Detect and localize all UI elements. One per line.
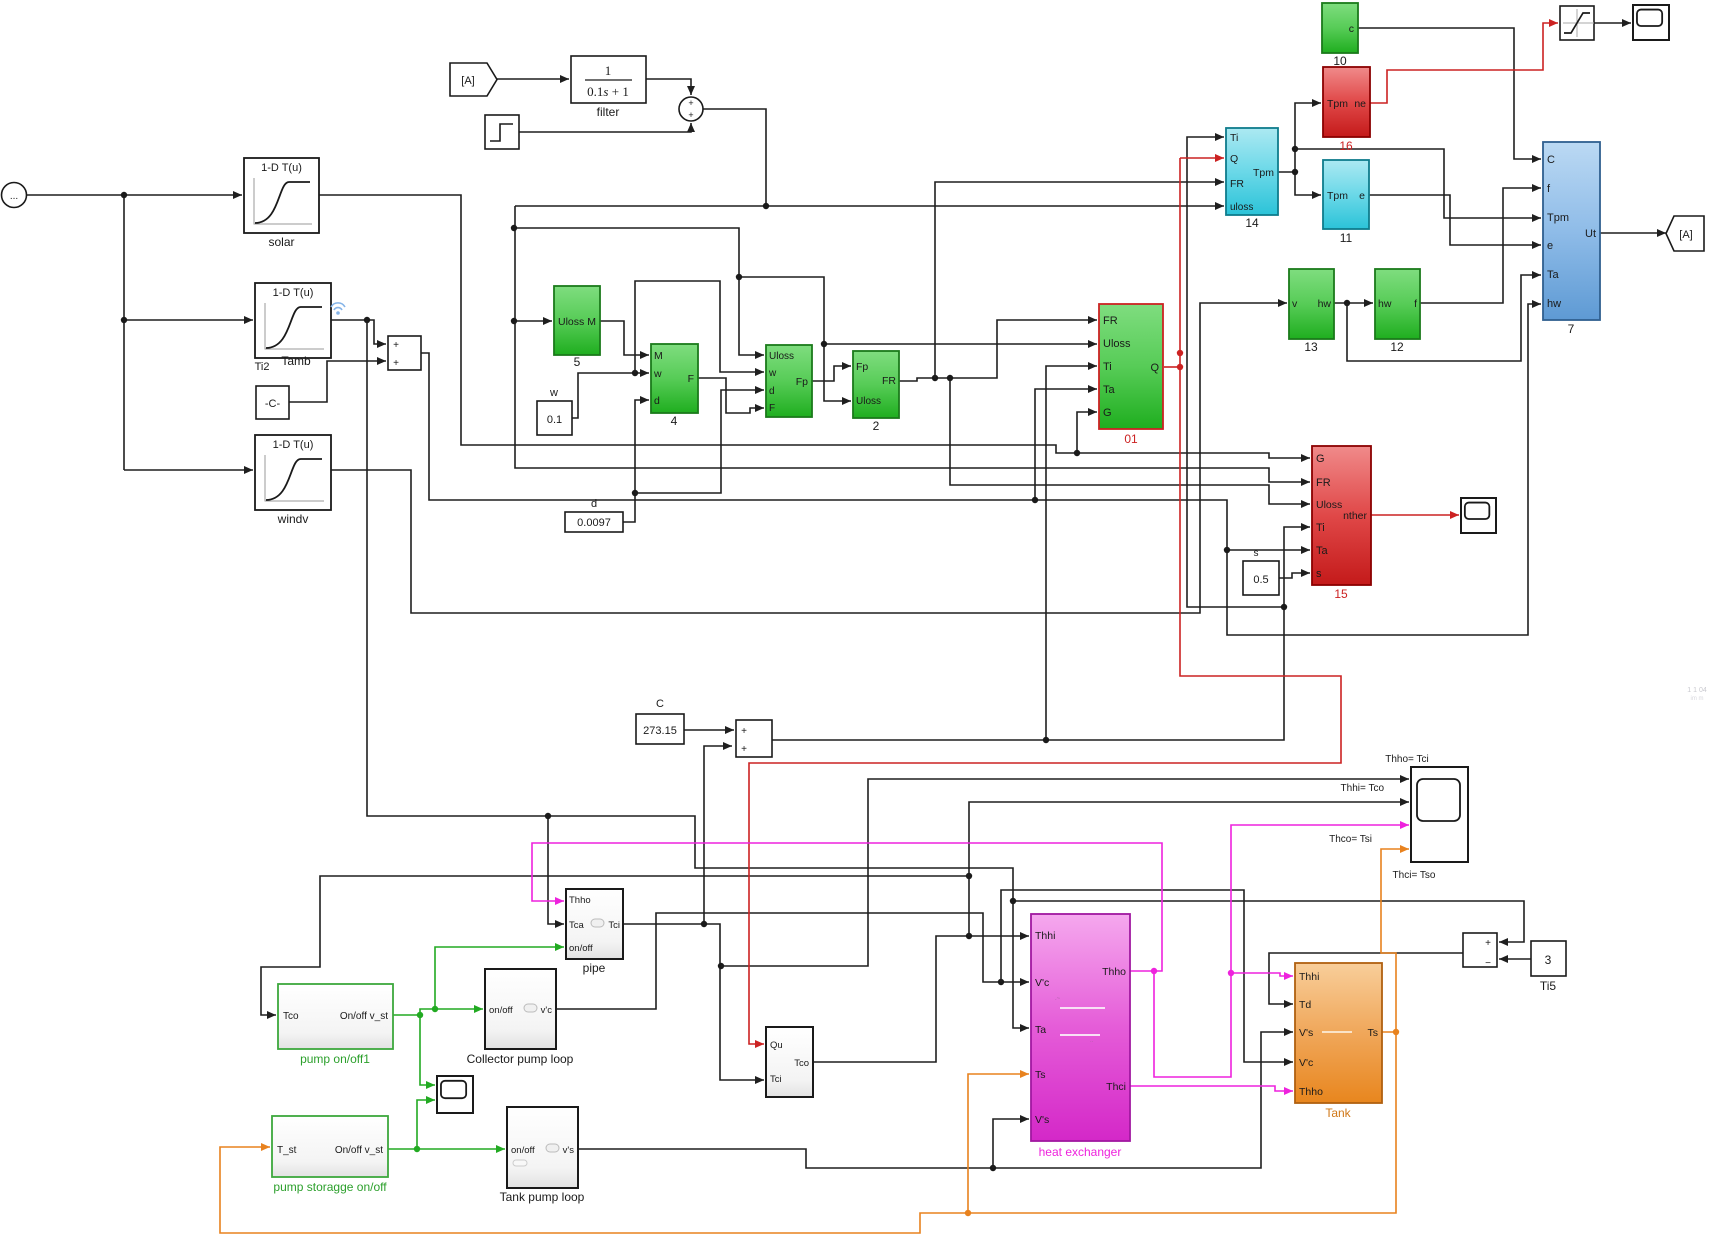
svg-text:FR: FR <box>1103 315 1118 327</box>
svg-text:+: + <box>688 110 693 120</box>
svg-text:e: e <box>1547 240 1553 252</box>
svg-text:0.5: 0.5 <box>1253 574 1268 586</box>
svg-text:Ti5: Ti5 <box>1540 979 1557 993</box>
svg-text:c: c <box>1349 23 1354 35</box>
svg-text:Thci= Tso: Thci= Tso <box>1393 870 1436 881</box>
svg-text:M: M <box>654 350 663 362</box>
svg-text:1: 1 <box>605 63 612 78</box>
svg-text:Uloss: Uloss <box>856 396 881 407</box>
svg-text:v: v <box>1292 298 1298 310</box>
svg-text:Ti: Ti <box>1316 522 1325 534</box>
svg-text:G: G <box>1316 453 1325 465</box>
svg-text:Thhi: Thhi <box>1035 930 1055 942</box>
svg-text:Thho: Thho <box>569 895 591 906</box>
svg-text:FR: FR <box>1316 477 1331 489</box>
svg-text:pump on/off1: pump on/off1 <box>300 1052 370 1066</box>
svg-text:Tank: Tank <box>1325 1106 1351 1120</box>
svg-text:ne: ne <box>1354 98 1366 110</box>
svg-text:Collector pump loop: Collector pump loop <box>467 1052 574 1066</box>
svg-text:uloss: uloss <box>1230 202 1253 213</box>
svg-text:.~: .~ <box>1055 996 1061 1002</box>
svg-text:im m: im m <box>1691 696 1704 702</box>
svg-text:FR: FR <box>1230 178 1244 190</box>
svg-text:V'c: V'c <box>1299 1057 1313 1069</box>
svg-text:Thho: Thho <box>1299 1086 1323 1098</box>
svg-text:5: 5 <box>574 355 581 369</box>
svg-text:M: M <box>587 316 596 328</box>
svg-text:12: 12 <box>1390 340 1404 354</box>
svg-text:solar: solar <box>268 235 294 249</box>
svg-text:f: f <box>1414 298 1417 310</box>
svg-text:2: 2 <box>873 419 880 433</box>
svg-text:1-D T(u): 1-D T(u) <box>273 439 314 451</box>
svg-text:Ta: Ta <box>1035 1024 1046 1036</box>
svg-text:w: w <box>549 387 558 399</box>
svg-text:nther: nther <box>1343 510 1367 522</box>
svg-text:Tpm: Tpm <box>1327 190 1348 202</box>
svg-text:Q: Q <box>1150 362 1159 374</box>
svg-text:Tci: Tci <box>608 920 620 931</box>
svg-text:hw: hw <box>1547 298 1561 310</box>
svg-text:Ut: Ut <box>1585 228 1596 240</box>
svg-text:+: + <box>688 98 693 108</box>
svg-text:Fp: Fp <box>856 361 868 373</box>
svg-text:[A]: [A] <box>1679 229 1692 241</box>
svg-text:273.15: 273.15 <box>643 725 677 737</box>
svg-text:s: s <box>1316 568 1322 580</box>
svg-text:+: + <box>393 340 399 351</box>
svg-text:Thci: Thci <box>1106 1081 1126 1093</box>
svg-text:F: F <box>769 403 775 414</box>
svg-text:d: d <box>654 395 660 407</box>
svg-text:windv: windv <box>277 512 309 526</box>
svg-text:Ts: Ts <box>1368 1027 1379 1039</box>
svg-text:15: 15 <box>1334 587 1348 601</box>
svg-text:T_st: T_st <box>277 1145 297 1156</box>
svg-text:V's: V's <box>1299 1027 1313 1039</box>
svg-text:v'c: v'c <box>541 1005 553 1016</box>
svg-text:Tpm: Tpm <box>1327 98 1348 110</box>
svg-text:Tca: Tca <box>569 920 585 931</box>
svg-text:...: ... <box>10 191 18 202</box>
svg-text:filter: filter <box>597 105 620 119</box>
svg-text:On/off v_st: On/off v_st <box>340 1011 388 1022</box>
svg-text:s: s <box>1254 548 1259 559</box>
svg-text:Tco: Tco <box>794 1058 809 1069</box>
svg-text:Thco= Tsi: Thco= Tsi <box>1329 834 1372 845</box>
svg-text:Ta: Ta <box>1547 269 1560 281</box>
svg-text:d: d <box>591 498 597 510</box>
svg-text:[A]: [A] <box>461 75 474 87</box>
svg-text:v's: v's <box>563 1145 575 1156</box>
svg-text:on/off: on/off <box>489 1005 513 1016</box>
svg-text:FR: FR <box>882 375 896 387</box>
svg-text:+: + <box>393 358 399 369</box>
svg-text:+: + <box>741 726 747 737</box>
svg-text:Tci: Tci <box>770 1074 782 1085</box>
svg-text:Thho: Thho <box>1102 966 1126 978</box>
svg-text:Ti2: Ti2 <box>255 361 270 373</box>
svg-text:Tamb: Tamb <box>281 354 311 368</box>
svg-text:0.1: 0.1 <box>547 414 562 426</box>
svg-text:1-D T(u): 1-D T(u) <box>273 287 314 299</box>
svg-text:hw: hw <box>1318 298 1332 310</box>
svg-text:Ti: Ti <box>1103 361 1112 373</box>
svg-text:w: w <box>768 368 777 379</box>
svg-text:..: .. <box>1090 1038 1094 1044</box>
svg-text:Thhi: Thhi <box>1299 971 1319 983</box>
svg-text:e: e <box>1359 190 1365 202</box>
svg-text:Uloss: Uloss <box>558 316 584 328</box>
svg-text:Q: Q <box>1230 153 1238 165</box>
svg-text:pump storagge on/off: pump storagge on/off <box>273 1180 387 1194</box>
svg-text:Tco: Tco <box>283 1011 299 1022</box>
svg-text:Td: Td <box>1299 999 1311 1011</box>
svg-text:C: C <box>1547 154 1555 166</box>
svg-text:Ta: Ta <box>1316 545 1329 557</box>
svg-text:hw: hw <box>1378 298 1392 310</box>
svg-text:Uloss: Uloss <box>1316 499 1342 511</box>
svg-text:w: w <box>653 368 662 380</box>
svg-text:-C-: -C- <box>265 398 281 410</box>
svg-text:1-D T(u): 1-D T(u) <box>261 162 302 174</box>
svg-text:Ts: Ts <box>1035 1069 1046 1081</box>
svg-text:14: 14 <box>1245 216 1259 230</box>
svg-text:on/off: on/off <box>569 943 593 954</box>
svg-text:V's: V's <box>1035 1114 1049 1126</box>
svg-text:on/off: on/off <box>511 1145 535 1156</box>
svg-text:heat exchanger: heat exchanger <box>1039 1145 1122 1159</box>
svg-text:Tpm: Tpm <box>1547 212 1569 224</box>
svg-text:01: 01 <box>1124 432 1138 446</box>
svg-text:Tpm: Tpm <box>1253 167 1274 179</box>
svg-text:0.0097: 0.0097 <box>577 517 611 529</box>
svg-text:Thho= Tci: Thho= Tci <box>1385 754 1428 765</box>
svg-text:On/off v_st: On/off v_st <box>335 1145 383 1156</box>
svg-text:pipe: pipe <box>583 961 606 975</box>
svg-text:Qu: Qu <box>770 1040 783 1051</box>
svg-text:Fp: Fp <box>796 376 808 388</box>
svg-text:+: + <box>1485 938 1491 949</box>
svg-text:Tank pump loop: Tank pump loop <box>500 1190 585 1204</box>
svg-text:3: 3 <box>1545 953 1552 967</box>
svg-text:G: G <box>1103 407 1112 419</box>
svg-text:Thhi= Tco: Thhi= Tco <box>1341 783 1385 794</box>
svg-text:1 1 04: 1 1 04 <box>1687 687 1707 694</box>
svg-text:7: 7 <box>1568 322 1575 336</box>
svg-text:4: 4 <box>671 414 678 428</box>
svg-text:Ti: Ti <box>1230 132 1238 144</box>
svg-text:+: + <box>741 744 747 755</box>
svg-text:0.1s + 1: 0.1s + 1 <box>587 84 629 99</box>
svg-text:d: d <box>769 386 775 397</box>
svg-text:F: F <box>688 373 694 385</box>
svg-text:V'c: V'c <box>1035 977 1049 989</box>
svg-text:Ta: Ta <box>1103 384 1116 396</box>
svg-text:11: 11 <box>1340 231 1353 245</box>
svg-text:10: 10 <box>1333 54 1347 68</box>
svg-text:Uloss: Uloss <box>1103 338 1131 350</box>
svg-text:−: − <box>1485 958 1491 969</box>
svg-text:13: 13 <box>1304 340 1318 354</box>
svg-text:16: 16 <box>1339 139 1353 153</box>
svg-text:C: C <box>656 698 664 710</box>
svg-text:Uloss: Uloss <box>769 351 794 362</box>
